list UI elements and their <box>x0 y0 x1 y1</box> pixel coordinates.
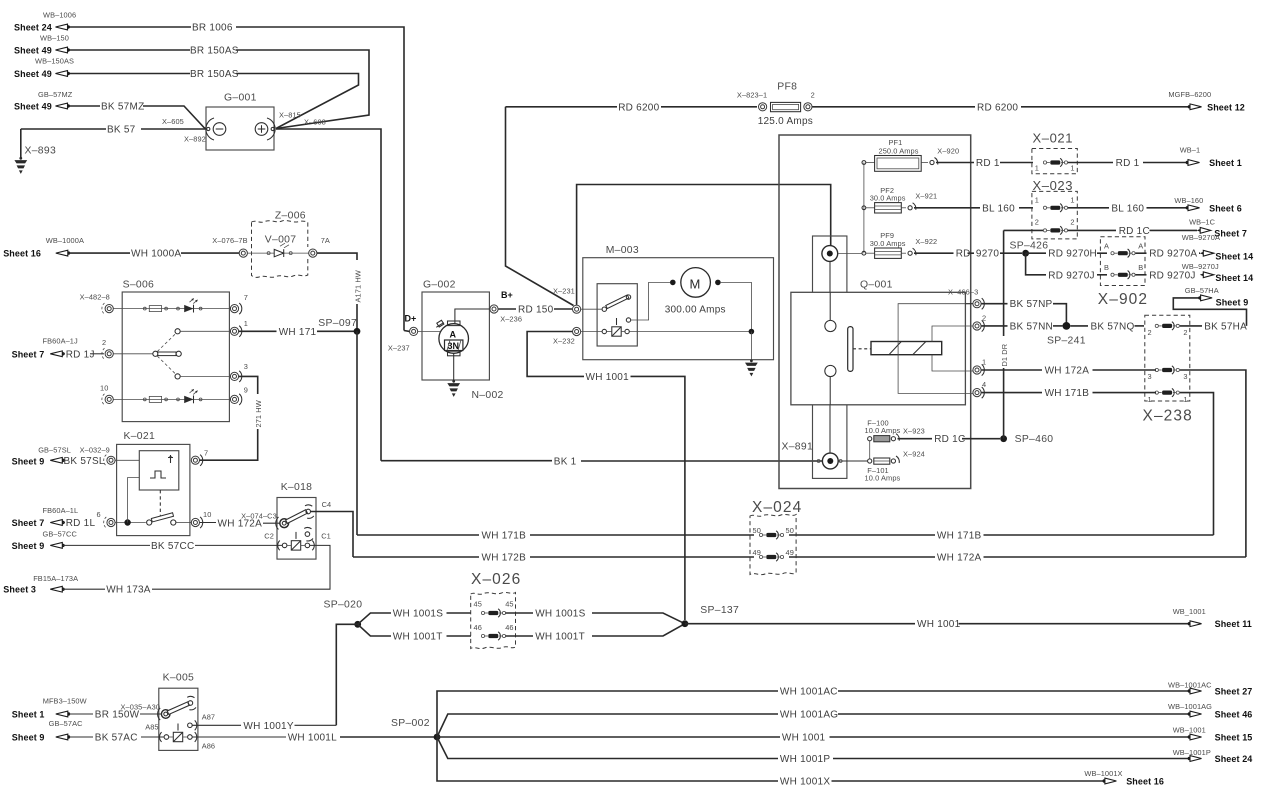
S-006 right pin 1 <box>230 319 248 337</box>
wire RD 150 <box>499 305 573 316</box>
K-021 left pin (BK 57SL) <box>104 455 140 466</box>
svg-text:WH 172B: WH 172B <box>482 553 527 564</box>
S-006 right pin 3 <box>230 362 248 382</box>
svg-text:SP–241: SP–241 <box>1047 335 1086 346</box>
S-006 row1 internals (resistor + LED to pin 7) <box>113 298 231 312</box>
svg-text:Sheet 49: Sheet 49 <box>14 102 52 112</box>
svg-text:WB–1001: WB–1001 <box>1173 726 1206 735</box>
svg-text:S–006: S–006 <box>123 280 155 291</box>
svg-text:G–001: G–001 <box>224 93 257 104</box>
wire RD 6200 (right) <box>812 102 1188 113</box>
svg-text:FB60A–1J: FB60A–1J <box>43 337 79 346</box>
svg-text:Sheet 7: Sheet 7 <box>12 518 45 528</box>
svg-text:SP–460: SP–460 <box>1015 434 1054 445</box>
svg-text:FB60A–1L: FB60A–1L <box>43 506 79 515</box>
wire WH 1000A <box>69 249 240 260</box>
svg-text:X–076–7B: X–076–7B <box>212 236 247 245</box>
svg-text:WH 1001: WH 1001 <box>782 733 826 744</box>
Q-001 pin X-466-3 <box>948 288 984 310</box>
svg-text:K–021: K–021 <box>124 431 156 442</box>
svg-text:SP–137: SP–137 <box>700 605 739 616</box>
wire RD 9270H <box>1026 249 1107 260</box>
svg-text:RD 1C: RD 1C <box>934 434 965 445</box>
svg-text:BK 1: BK 1 <box>554 456 577 467</box>
svg-text:3: 3 <box>244 362 248 371</box>
junction SP-460 <box>1000 434 1053 445</box>
svg-text:X–032–9: X–032–9 <box>80 446 110 455</box>
svg-text:Sheet 24: Sheet 24 <box>1215 754 1253 764</box>
svg-text:A: A <box>450 330 457 340</box>
sheet 11 arrow <box>1173 607 1252 629</box>
diode V-007 <box>248 235 310 258</box>
connector X-823-1 <box>737 91 767 111</box>
sheet 14 arrow (9270A) <box>1182 233 1253 261</box>
svg-text:2: 2 <box>811 91 815 100</box>
component K-021 box <box>117 431 190 536</box>
svg-text:RD 9270H: RD 9270H <box>1048 249 1097 260</box>
wire WH 1001 (from X-232) <box>527 332 685 621</box>
connector pin 2 of PF8 <box>804 91 815 111</box>
svg-text:FB15A–173A: FB15A–173A <box>33 574 78 583</box>
svg-text:X–231: X–231 <box>553 287 575 296</box>
wire BR 1006 <box>67 23 404 331</box>
wire BK 57NQ <box>1070 321 1144 332</box>
wire RD 9270 (inside) <box>914 249 1022 260</box>
Q-001 pin 4 <box>973 380 986 398</box>
wire WH 171B (Q-001 pin4 to X-238) <box>981 388 1213 535</box>
junction SP-002 <box>391 718 440 740</box>
svg-text:X–021: X–021 <box>1033 131 1074 146</box>
sheet 49 arrow (upper) <box>14 34 70 56</box>
svg-text:2: 2 <box>1148 328 1152 337</box>
svg-text:7A: 7A <box>321 236 330 245</box>
junction SP-241 <box>1047 322 1086 346</box>
svg-text:V–007: V–007 <box>265 235 297 246</box>
svg-text:RD 9270J: RD 9270J <box>1048 270 1094 281</box>
wire RD 1L <box>12 506 96 529</box>
connector D+ <box>388 314 418 353</box>
svg-text:RD 6200: RD 6200 <box>618 102 659 113</box>
svg-text:BK 57MZ: BK 57MZ <box>101 102 144 113</box>
K-005 input pin and blade <box>158 696 196 720</box>
svg-text:Z–006: Z–006 <box>275 211 306 222</box>
connector X-238 <box>1143 315 1193 424</box>
connector 7A <box>309 236 330 257</box>
wire WH 171B left label <box>482 531 527 542</box>
svg-text:X–815: X–815 <box>279 111 301 120</box>
svg-text:X–026: X–026 <box>471 571 521 588</box>
svg-text:WB–1001AG: WB–1001AG <box>1168 702 1212 711</box>
svg-text:7: 7 <box>244 293 248 302</box>
svg-text:30.0 Amps: 30.0 Amps <box>870 194 906 203</box>
svg-text:10: 10 <box>100 384 108 393</box>
svg-text:RD 1C: RD 1C <box>1119 226 1150 237</box>
svg-text:WH 171B: WH 171B <box>1045 388 1090 399</box>
svg-text:49: 49 <box>753 548 761 557</box>
svg-text:WH 172A: WH 172A <box>1045 366 1090 377</box>
wire RD 1 (inside) <box>936 158 1033 169</box>
sheet 9 arrow (GB-57HA) <box>1185 286 1249 307</box>
svg-text:K–005: K–005 <box>163 673 195 684</box>
wire WH 171B row <box>357 531 1214 542</box>
Q-001 contact bar <box>848 327 871 372</box>
svg-text:N–002: N–002 <box>472 390 504 401</box>
ground N-002 <box>447 353 503 401</box>
svg-text:WB_1001: WB_1001 <box>1173 607 1206 616</box>
svg-text:Sheet 14: Sheet 14 <box>1215 252 1253 262</box>
svg-text:WH 1000A: WH 1000A <box>131 249 181 260</box>
wire RD 1J <box>12 337 104 361</box>
svg-text:X–605: X–605 <box>162 117 184 126</box>
wire RD 1C to SP-460 <box>898 434 1001 445</box>
wire BR 150AS (lower) <box>67 69 359 129</box>
svg-text:WH 1001: WH 1001 <box>917 619 961 630</box>
S-006 right pin 7 <box>230 293 248 314</box>
wire WH 1001L <box>192 733 437 744</box>
svg-text:Sheet 9: Sheet 9 <box>12 456 45 466</box>
svg-text:WH 1001: WH 1001 <box>586 372 630 383</box>
wire RD 6200 (left) <box>506 102 758 305</box>
svg-text:BK 57NN: BK 57NN <box>1010 321 1053 332</box>
svg-text:50: 50 <box>753 526 761 535</box>
wire BL 160 (to sheet 6) <box>1068 203 1188 214</box>
component M-003 box <box>583 245 774 360</box>
svg-text:WH 1001T: WH 1001T <box>393 632 443 643</box>
svg-text:RD 1: RD 1 <box>976 158 1000 169</box>
S-006 left connector X-482-8 <box>80 293 114 315</box>
svg-text:BK 57: BK 57 <box>107 125 136 136</box>
S-006 switch common (row 2) <box>113 329 231 379</box>
svg-text:Sheet 46: Sheet 46 <box>1215 710 1253 720</box>
svg-text:2: 2 <box>1183 328 1187 337</box>
K-018 coil row <box>264 528 331 551</box>
K-018 input terminal and blade <box>276 500 331 530</box>
svg-text:BL 160: BL 160 <box>1111 203 1144 214</box>
svg-text:WB–1006: WB–1006 <box>43 11 76 20</box>
bottom terminal X-891 <box>782 442 843 469</box>
K-021 right pin 10 <box>191 510 211 528</box>
connector X-232 <box>553 327 581 345</box>
motor M <box>665 268 752 332</box>
sheet 46 arrow <box>1168 702 1252 719</box>
svg-text:X–035–A30: X–035–A30 <box>121 703 161 712</box>
wire BK 57NP <box>981 299 1066 326</box>
sheet 14 arrow (9270J) <box>1182 262 1253 283</box>
connector X-023 <box>1032 178 1077 239</box>
svg-text:WH 171: WH 171 <box>279 327 317 338</box>
fuse F-101 <box>838 450 925 483</box>
wire WH 173A <box>3 574 151 596</box>
svg-text:WH 1001S: WH 1001S <box>393 609 443 620</box>
svg-text:X–238: X–238 <box>1143 408 1193 425</box>
svg-text:Sheet 49: Sheet 49 <box>14 69 52 79</box>
relay Q-001 <box>791 280 966 405</box>
svg-text:Sheet 16: Sheet 16 <box>1126 777 1164 787</box>
svg-text:WH 1001P: WH 1001P <box>780 754 830 765</box>
svg-text:Sheet 9: Sheet 9 <box>1216 297 1249 307</box>
sheet 49 arrow (BK 57MZ) <box>14 90 73 112</box>
svg-text:RD 9270A: RD 9270A <box>1149 249 1197 260</box>
svg-text:WB–1001P: WB–1001P <box>1173 748 1211 757</box>
svg-text:A85: A85 <box>145 722 158 731</box>
svg-text:MGFB–6200: MGFB–6200 <box>1168 90 1211 99</box>
wire WH 1001Y <box>192 721 336 732</box>
wire WH 172A (Q-001 pin1 to X-238) <box>981 366 1246 558</box>
svg-text:WB–1: WB–1 <box>1180 145 1201 154</box>
Q-001 pin 2 <box>973 314 986 332</box>
svg-text:GB–57CC: GB–57CC <box>43 529 78 538</box>
svg-text:PF8: PF8 <box>777 82 797 93</box>
svg-text:Sheet 1: Sheet 1 <box>12 710 45 720</box>
svg-text:10: 10 <box>203 510 211 519</box>
battery G-001 <box>162 93 326 151</box>
svg-text:50: 50 <box>786 526 794 535</box>
svg-text:X–074–C3: X–074–C3 <box>241 512 277 521</box>
wire WH 1001S (left) <box>358 609 471 625</box>
svg-text:125.0 Amps: 125.0 Amps <box>758 116 813 127</box>
S-006 right pin 9 <box>230 386 248 405</box>
svg-text:3: 3 <box>1148 372 1152 381</box>
wire WH 172 (S-006 pin3 to K-021 pin7) <box>200 376 264 460</box>
wire WH 1001S (right) <box>506 609 685 624</box>
Q-001 inner frame wires <box>898 304 973 394</box>
svg-text:Sheet 1: Sheet 1 <box>1209 158 1242 168</box>
svg-text:Sheet 6: Sheet 6 <box>1209 203 1242 213</box>
ground X-893 <box>14 129 56 174</box>
svg-text:Sheet 24: Sheet 24 <box>14 23 52 33</box>
svg-text:X–902: X–902 <box>1098 291 1148 308</box>
fuse PF2 <box>862 186 937 213</box>
svg-text:RD 1L: RD 1L <box>66 518 96 529</box>
component K-005 box <box>159 673 198 751</box>
svg-text:1: 1 <box>1148 395 1152 404</box>
svg-text:Sheet 9: Sheet 9 <box>12 733 45 743</box>
svg-text:6: 6 <box>97 510 101 519</box>
svg-text:A171 HW: A171 HW <box>353 270 362 302</box>
connector X-024 <box>750 499 802 575</box>
svg-text:X–608: X–608 <box>304 118 326 127</box>
wire BR 150W <box>12 696 162 720</box>
wire RD 9270J <box>1048 270 1195 281</box>
fuse PF8 <box>758 82 813 127</box>
fuse PF9 <box>862 231 937 258</box>
alternator symbol <box>418 320 469 356</box>
svg-text:X–024: X–024 <box>752 499 802 516</box>
svg-text:GB–57SL: GB–57SL <box>38 446 71 455</box>
svg-text:Sheet 14: Sheet 14 <box>1215 273 1253 283</box>
svg-text:WB–1001AC: WB–1001AC <box>1168 680 1212 689</box>
wire WH 1001T (left) <box>358 624 471 642</box>
svg-text:GB–57MZ: GB–57MZ <box>38 90 73 99</box>
svg-text:Sheet 12: Sheet 12 <box>1207 102 1245 112</box>
svg-text:BL 160: BL 160 <box>982 203 1015 214</box>
svg-text:45: 45 <box>474 600 482 609</box>
svg-text:Sheet 7: Sheet 7 <box>12 349 45 359</box>
svg-text:9270: 9270 <box>976 249 999 260</box>
svg-text:WH 1001AC: WH 1001AC <box>780 687 838 698</box>
svg-text:1: 1 <box>1070 163 1074 172</box>
svg-text:BK 57CC: BK 57CC <box>151 541 194 552</box>
wire BK 57AC <box>12 719 164 743</box>
sheet 24 arrow <box>14 11 76 33</box>
svg-text:BK 57HA: BK 57HA <box>1204 321 1247 332</box>
wire WH 171A vertical <box>317 253 362 331</box>
sheet 15 arrow <box>1173 726 1253 743</box>
svg-text:BK 57NP: BK 57NP <box>1010 299 1053 310</box>
svg-text:SP–020: SP–020 <box>324 600 363 611</box>
wire BK 57 <box>21 125 206 136</box>
svg-text:BR 150AS: BR 150AS <box>190 69 239 80</box>
wire WH 1001P <box>437 737 1188 765</box>
wire WH 171 to SP-097 <box>239 327 357 338</box>
svg-text:BR 1006: BR 1006 <box>192 23 233 34</box>
svg-text:A86: A86 <box>202 742 215 751</box>
svg-text:BR 150AS: BR 150AS <box>190 46 239 57</box>
svg-text:10.0 Amps: 10.0 Amps <box>865 474 901 483</box>
svg-text:C4: C4 <box>322 500 332 509</box>
fuse PF1 <box>862 138 959 171</box>
svg-text:X–891: X–891 <box>782 442 814 453</box>
svg-text:A: A <box>1104 242 1109 251</box>
svg-text:WH 171B: WH 171B <box>937 531 982 542</box>
sheet 6 arrow <box>1174 196 1241 214</box>
svg-text:WH 173A: WH 173A <box>106 585 151 596</box>
wire WH 1001AC <box>437 687 1188 738</box>
svg-text:RD 150: RD 150 <box>518 305 554 316</box>
connector X-021 <box>1032 131 1077 174</box>
connector X-902 <box>1098 237 1148 308</box>
svg-text:Sheet 15: Sheet 15 <box>1215 733 1253 743</box>
svg-text:2: 2 <box>1035 217 1039 226</box>
svg-text:X–236: X–236 <box>500 314 522 323</box>
wire BK 1 <box>381 456 823 467</box>
wire WH 172B row <box>353 553 1246 564</box>
svg-text:Q–001: Q–001 <box>860 280 893 291</box>
wire RD 9270A <box>1136 249 1201 260</box>
M-003 inner switch box <box>581 282 670 346</box>
junction SP-097 <box>318 318 360 535</box>
svg-text:1: 1 <box>1070 195 1074 204</box>
component G-002 box <box>422 280 489 381</box>
svg-text:B+: B+ <box>501 290 513 300</box>
svg-text:271 HW: 271 HW <box>254 400 263 427</box>
svg-text:30.0 Amps: 30.0 Amps <box>870 239 906 248</box>
K-005 coil row <box>145 722 215 750</box>
svg-text:Sheet 11: Sheet 11 <box>1215 619 1252 629</box>
wire WH 1001T (right) <box>506 624 685 643</box>
connector X-026 <box>471 571 522 649</box>
svg-text:BK 57AC: BK 57AC <box>95 733 138 744</box>
svg-text:10.0 Amps: 10.0 Amps <box>865 426 901 435</box>
svg-text:X–893: X–893 <box>25 146 57 157</box>
svg-text:3: 3 <box>1183 372 1187 381</box>
svg-text:Sheet 16: Sheet 16 <box>3 249 41 259</box>
svg-text:X–922: X–922 <box>915 237 937 246</box>
wire C1 to WH 173A <box>152 545 330 589</box>
top terminal <box>822 246 838 262</box>
svg-text:X–823–1: X–823–1 <box>737 91 767 100</box>
svg-text:1: 1 <box>1183 395 1187 404</box>
junction SP-426 <box>1010 241 1049 275</box>
wire BL 160 (inside) <box>914 203 1033 214</box>
svg-text:WB–9270A: WB–9270A <box>1182 233 1220 242</box>
sheet 16 arrow <box>3 236 84 259</box>
svg-text:250.0 Amps: 250.0 Amps <box>879 146 919 155</box>
svg-text:C1: C1 <box>321 532 331 541</box>
svg-text:WH 1001S: WH 1001S <box>535 609 585 620</box>
svg-text:WH 1001X: WH 1001X <box>780 777 830 788</box>
junction SP-137 <box>682 605 740 627</box>
wire BK 57HA <box>1173 298 1247 333</box>
junction SP-020 <box>324 600 363 726</box>
svg-text:M–003: M–003 <box>606 245 639 256</box>
svg-text:4: 4 <box>982 380 986 389</box>
svg-text:Sheet 9: Sheet 9 <box>12 541 45 551</box>
wire RD 1D vertical <box>1000 230 1009 438</box>
svg-text:C2: C2 <box>264 532 274 541</box>
Q-001 pin 1 <box>973 358 986 376</box>
svg-text:46: 46 <box>505 623 513 632</box>
connector X-231 <box>553 185 831 314</box>
svg-text:WH 1001AG: WH 1001AG <box>780 710 838 721</box>
svg-text:9: 9 <box>244 386 248 395</box>
svg-text:B: B <box>1104 263 1109 272</box>
svg-text:1: 1 <box>244 319 248 328</box>
svg-text:WB–1C: WB–1C <box>1189 217 1216 226</box>
sheet 24 arrow <box>1173 748 1253 764</box>
S-006 left connector pin 2 (RD 1J) <box>102 338 113 359</box>
svg-text:GB–57AC: GB–57AC <box>49 719 84 728</box>
wire WH 1001 (middle) <box>437 733 1188 744</box>
K-021 coil feed and switch <box>115 478 191 526</box>
connector B+ <box>455 290 522 324</box>
svg-text:X–921: X–921 <box>915 192 937 201</box>
K-021 inner timer box <box>139 451 179 490</box>
wire BK 57CC <box>12 529 283 552</box>
K-021 right pin 7 <box>191 449 208 466</box>
svg-text:2: 2 <box>982 314 986 323</box>
svg-text:WB–150AS: WB–150AS <box>35 57 74 66</box>
M-003 solenoid coil row <box>581 318 751 336</box>
wire RD 1 (to sheet 1) <box>1068 158 1188 169</box>
svg-text:B: B <box>1138 263 1143 272</box>
fuse F-100 <box>865 419 925 459</box>
svg-text:7: 7 <box>204 449 208 458</box>
svg-text:X–023: X–023 <box>1033 178 1074 193</box>
svg-text:46: 46 <box>474 623 482 632</box>
svg-text:MFB3–150W: MFB3–150W <box>43 696 87 705</box>
wire WH 1001X <box>437 737 1103 788</box>
svg-text:X–237: X–237 <box>388 344 410 353</box>
svg-text:X–920: X–920 <box>937 146 959 155</box>
sheet 49 arrow (lower) <box>14 57 74 80</box>
svg-text:Sheet 49: Sheet 49 <box>14 46 52 56</box>
svg-text:2: 2 <box>102 338 106 347</box>
K-021 left pin 6 (RD 1L) <box>97 510 116 528</box>
svg-text:D1 DR: D1 DR <box>1000 344 1009 367</box>
svg-text:2: 2 <box>1070 217 1074 226</box>
svg-text:RD 6200: RD 6200 <box>977 102 1018 113</box>
svg-text:49: 49 <box>786 548 794 557</box>
wire WH 1001AG <box>437 710 1188 738</box>
sheet 12 arrow <box>1168 90 1245 112</box>
sheet 16 arrow <box>1084 769 1164 787</box>
svg-text:WH 172A: WH 172A <box>937 553 982 564</box>
wire RD 1C (to sheet 7) <box>1004 226 1197 237</box>
svg-text:Sheet 3: Sheet 3 <box>3 585 36 595</box>
svg-text:X–924: X–924 <box>903 450 925 459</box>
svg-text:1: 1 <box>1035 163 1039 172</box>
